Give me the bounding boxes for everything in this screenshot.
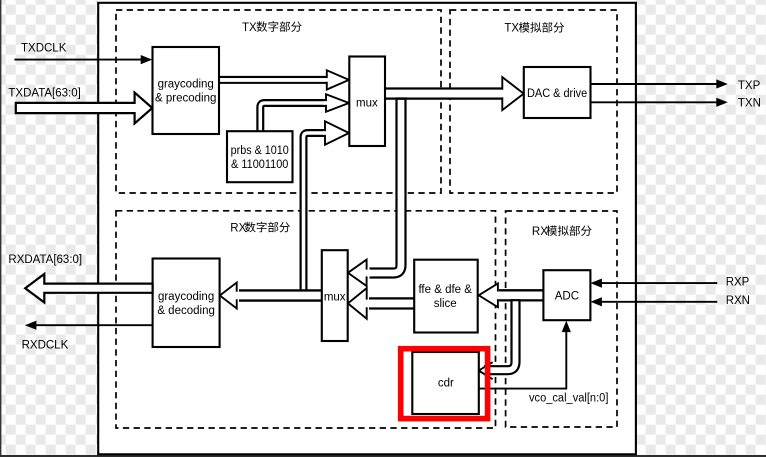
block arrow RXDATA output [25,274,152,302]
svg-text:ADC: ADC [555,291,579,303]
wire ADC->ffe [499,289,543,301]
svg-text:TXDCLK: TXDCLK [21,42,67,54]
svg-text:TXP: TXP [738,80,761,92]
wire mux->DAC [386,87,505,99]
block arrow TXDATA input [16,93,153,124]
svg-text:prbs & 1010: prbs & 1010 [231,145,289,157]
wire prbs->mux input2 [260,103,325,132]
block TX mux [349,57,385,147]
block cdr [412,352,479,414]
svg-text:cdr: cdr [438,378,454,390]
block ffe & dfe & slice [414,260,478,333]
svg-text:TX: TX [242,22,257,34]
block RX mux [322,250,348,341]
svg-text:graycoding: graycoding [158,291,214,303]
svg-text:mux: mux [356,98,378,110]
container RX analog (RX模拟部分) [506,211,617,427]
svg-text:RXN: RXN [726,295,750,307]
arrow TXP [591,83,717,85]
window left edge [0,0,1,457]
svg-text:RXP: RXP [726,276,750,288]
arrow RXN [602,301,718,303]
svg-text:& precoding: & precoding [155,93,216,105]
svg-text:RXDATA[63:0]: RXDATA[63:0] [8,254,82,266]
svg-text:slice: slice [434,298,457,310]
svg-text:RX: RX [230,222,246,234]
svg-text:DAC & drive: DAC & drive [527,88,587,100]
svg-text:RXDCLK: RXDCLK [22,339,69,351]
block prbs generator [227,131,293,182]
svg-text:ffe & dfe &: ffe & dfe & [418,284,472,296]
wire tx loopback down to rx mux [370,97,402,273]
container RX digital (RX数字部分) [116,211,496,428]
svg-text:TXN: TXN [738,98,761,110]
container TX digital (TX数字部分) [116,10,441,193]
wire graycoding->mux input1 [219,76,326,84]
svg-text:& 11001100: & 11001100 [231,159,288,171]
svg-text:vco_cal_val[n:0]: vco_cal_val[n:0] [529,392,608,404]
arrow TXDCLK [14,59,141,61]
arrow vco_cal_val cdr->ADC [479,331,566,389]
arrow TXN [591,101,717,103]
svg-text:& decoding: & decoding [157,305,215,317]
white margin above outer box [98,0,636,3]
outer chip boundary box [98,3,636,455]
block graycoding & precoding [153,47,220,134]
block graycoding & decoding [153,259,220,348]
svg-text:TXDATA[63:0]: TXDATA[63:0] [8,88,80,100]
wire adc tap down to cdr [484,299,516,370]
svg-text:TX: TX [504,23,519,35]
arrow RXP [602,282,718,284]
block DAC & drive [524,67,591,118]
svg-text:graycoding: graycoding [158,79,214,91]
svg-text:mux: mux [324,292,346,304]
open arrowhead into cdr [479,362,493,379]
wire rx mux->graycoding&decoding [239,289,322,301]
svg-text:RX: RX [532,226,548,238]
wire ffe->rx mux [369,297,414,309]
wire rx loopback -> mux input3 [304,133,325,293]
block ADC [543,270,590,320]
red highlight rectangle around cdr [401,349,488,419]
container TX analog (TX模拟部分) [450,10,617,193]
window bottom edge [0,455,766,457]
arrow RXDCLK [36,324,153,326]
